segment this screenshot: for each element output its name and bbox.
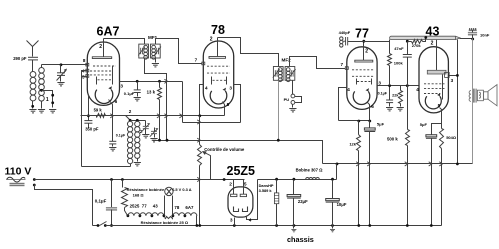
osc trimmer 2 — [154, 128, 156, 132]
svg-text:5μF: 5μF — [420, 122, 428, 127]
ground trimmer 1 — [142, 135, 149, 138]
wire 43 pin3 — [450, 75, 458, 77]
resistor 100k — [389, 40, 391, 54]
switch — [93, 225, 99, 227]
hop — [356, 162, 359, 166]
junction — [198, 224, 201, 227]
wire MF1 primary bottom — [145, 59, 167, 141]
6A7 grid dashes — [93, 65, 116, 67]
chassis ground up — [469, 28, 477, 30]
svg-text:5: 5 — [438, 103, 441, 108]
wire osc line — [106, 115, 126, 117]
MF1 primary trimmer — [138, 47, 145, 56]
svg-text:6A7: 6A7 — [185, 205, 194, 210]
antenna — [27, 41, 39, 47]
AC source bars — [10, 183, 25, 185]
25Z5 pin 4 wire — [247, 180, 258, 220]
78 inner screen box — [211, 77, 213, 85]
svg-text:0.1μF: 0.1μF — [116, 134, 126, 138]
ground tuning cap — [57, 83, 64, 86]
ground PU — [289, 109, 296, 112]
wire pot top — [199, 116, 201, 145]
wire MF1 secondary ground — [155, 59, 157, 63]
tube 78 envelope — [203, 41, 233, 108]
wire tap to link — [42, 91, 53, 108]
wire MF2 secondary to PU — [292, 81, 294, 95]
wire primary bottom — [32, 101, 34, 109]
junction — [233, 224, 236, 227]
hop — [179, 114, 182, 118]
25Z5 anode right — [243, 180, 245, 195]
ground antenna primary — [29, 110, 36, 113]
wire to filter — [336, 164, 338, 180]
wire 5uF-43 down — [431, 139, 433, 226]
resistor 12k — [358, 121, 360, 135]
6A7 pin stubs — [86, 63, 89, 77]
hop — [164, 114, 167, 118]
junction — [331, 224, 334, 227]
6A7 inner screen box — [112, 67, 114, 81]
svg-text:504Ω: 504Ω — [446, 135, 457, 140]
tube 6A7 envelope — [87, 42, 119, 105]
resistor 25 ohm section — [165, 217, 173, 219]
junction — [139, 214, 142, 217]
svg-text:PU: PU — [284, 97, 290, 102]
43 cathode arc — [425, 96, 441, 109]
svg-text:43: 43 — [153, 203, 158, 208]
wire 6A7 pin4 down — [82, 71, 88, 167]
svg-text:chassis: chassis — [287, 235, 314, 244]
MF2 primary trimmer — [273, 69, 280, 78]
hop — [197, 138, 200, 142]
78 pin 4 wire — [200, 85, 204, 116]
wire antenna to coil — [32, 60, 34, 72]
junction — [172, 214, 175, 217]
svg-text:3.589 k: 3.589 k — [259, 188, 273, 193]
wire mains bottom — [35, 185, 93, 226]
svg-text:2: 2 — [431, 40, 434, 46]
wire cathode bus — [81, 115, 225, 117]
wire MF2 secondary top to 77 — [290, 57, 346, 69]
junction — [198, 114, 201, 117]
wire bottom bus — [106, 225, 442, 227]
svg-text:3: 3 — [451, 78, 454, 83]
junction — [357, 224, 360, 227]
capacitor 0.1uF osc cathode — [109, 141, 116, 144]
junction — [406, 40, 409, 43]
wire 500k down — [407, 146, 409, 226]
svg-text:77: 77 — [142, 203, 147, 208]
hop — [429, 162, 432, 166]
ground 10uF — [332, 226, 334, 229]
MF2 secondary trimmer — [289, 69, 296, 78]
wire MF2 primary bottom — [278, 81, 280, 141]
junction tuning cap — [60, 63, 63, 66]
svg-text:5: 5 — [227, 102, 230, 107]
heater 2525 — [128, 213, 140, 216]
43 plate bar — [427, 70, 446, 74]
wire 6A7 pin6 cathode down — [109, 100, 113, 142]
svg-text:2: 2 — [129, 109, 132, 114]
osc trimmer 1 — [145, 121, 147, 127]
MF2 secondary box — [285, 67, 295, 81]
osc coil winding 2 — [135, 121, 140, 126]
AC source — [7, 177, 26, 182]
wire PU ground — [292, 105, 294, 108]
wire 77 plate line — [348, 41, 390, 43]
MF1 secondary coil — [152, 45, 156, 49]
hop — [197, 177, 200, 181]
ground osc cathode cap — [109, 148, 116, 151]
ground antenna secondary — [38, 110, 45, 113]
svg-text:6.5 V 0.3 A: 6.5 V 0.3 A — [172, 187, 192, 192]
svg-text:270k: 270k — [412, 43, 422, 48]
resistor 500k — [407, 86, 409, 130]
tube 43 envelope — [419, 47, 448, 113]
wire 78 plate to MF2 — [218, 38, 279, 67]
ground — [386, 108, 393, 111]
osc coil winding 1 — [127, 121, 132, 126]
ground trimmer 2 — [150, 139, 157, 142]
junction — [406, 224, 409, 227]
wire 5uF down — [369, 132, 371, 226]
heater 43 — [152, 213, 164, 216]
wire secondary bottom — [41, 102, 43, 109]
svg-text:100k: 100k — [394, 60, 404, 65]
heater 78 — [173, 213, 185, 216]
junction — [471, 38, 474, 41]
junction — [129, 119, 132, 122]
svg-text:MF1: MF1 — [148, 35, 158, 40]
svg-text:47nF: 47nF — [394, 46, 404, 51]
77 pin 7 stub — [345, 67, 348, 70]
6A7 plate bar — [92, 57, 111, 59]
wire AVC vertical — [182, 82, 184, 123]
capacitor 350pF — [84, 121, 92, 124]
25Z5 pin 3 wire — [234, 218, 236, 226]
svg-text:0.1μF: 0.1μF — [378, 91, 388, 95]
hop — [110, 114, 113, 118]
ground link — [49, 110, 56, 113]
25Z5 cathode left — [234, 207, 239, 212]
wire 77 cathode network — [339, 120, 370, 122]
wire 100k down — [389, 66, 391, 86]
svg-text:500 k: 500 k — [387, 137, 398, 142]
junction — [31, 105, 34, 108]
junction — [87, 114, 90, 117]
svg-text:77: 77 — [355, 27, 369, 41]
junction — [293, 224, 296, 227]
svg-text:2: 2 — [210, 37, 213, 43]
svg-text:Bobine 307 Ω: Bobine 307 Ω — [296, 167, 324, 172]
svg-text:7: 7 — [340, 62, 343, 67]
svg-text:59 k: 59 k — [94, 108, 103, 113]
svg-text:3: 3 — [229, 86, 232, 91]
78 cathode arc — [210, 91, 227, 104]
wire grid line — [42, 64, 88, 66]
svg-text:78: 78 — [211, 23, 225, 37]
svg-text:Contrôle de volume: Contrôle de volume — [204, 147, 245, 152]
43 pin 3 tab — [445, 72, 450, 77]
capacitor 22uF — [293, 180, 295, 195]
MF1 primary coil — [144, 45, 148, 49]
svg-text:3: 3 — [230, 218, 233, 224]
svg-text:0,1μF: 0,1μF — [95, 199, 107, 204]
junction — [166, 139, 169, 142]
MF1 secondary trimmer — [154, 47, 161, 56]
svg-text:110 V: 110 V — [5, 166, 32, 178]
77 grid dashes — [352, 69, 374, 71]
43 grid dashes — [424, 83, 445, 85]
B+ bus bar — [390, 36, 457, 39]
wire volume feed — [279, 141, 323, 164]
ground osc winding 2 — [134, 163, 141, 166]
wire B+ filtered line — [323, 163, 473, 165]
77 pin 4 wire — [339, 88, 347, 121]
77 pin 3 wire — [378, 85, 419, 87]
wire osc winding2 bottom — [137, 159, 139, 162]
junction — [136, 80, 139, 83]
terminal — [33, 178, 36, 181]
resistor 22k — [400, 86, 402, 91]
junction — [331, 178, 334, 181]
77 plate bar — [355, 60, 373, 62]
heater 77 — [140, 213, 152, 216]
capacitor 290pF — [28, 57, 38, 60]
svg-text:290 pF: 290 pF — [13, 56, 27, 61]
loudspeaker — [469, 85, 497, 106]
wire 13k down — [159, 100, 161, 141]
wire 6A7 pin5 down — [82, 76, 88, 78]
junction — [151, 214, 154, 217]
77 cathode arc — [353, 91, 370, 104]
ground AVC cap — [134, 98, 141, 101]
pot wiper arrow — [203, 152, 211, 156]
svg-text:4: 4 — [416, 87, 419, 92]
capacitor 0.1uF 77 — [389, 86, 391, 101]
svg-text:3: 3 — [378, 80, 381, 85]
svg-text:78: 78 — [174, 205, 179, 210]
capacitor 0.1uF AVC — [137, 82, 139, 90]
resistor 270k — [408, 41, 412, 43]
junction — [158, 139, 161, 142]
svg-text:43: 43 — [426, 25, 440, 39]
capacitor 10nF — [468, 33, 477, 35]
wire 504 down — [441, 149, 443, 226]
MF1 secondary box — [151, 44, 161, 58]
hop — [405, 162, 408, 166]
resistor 13k — [159, 82, 161, 88]
wire right rail — [472, 39, 474, 164]
78 pin 2 wire — [217, 38, 219, 57]
hop — [439, 162, 442, 166]
MF1 primary box — [139, 44, 149, 58]
77 pin 2 wire — [363, 42, 365, 61]
6A7 pin 3 AVC wire — [120, 81, 183, 83]
junction — [368, 120, 371, 123]
svg-text:2: 2 — [365, 49, 368, 55]
junction — [121, 178, 124, 181]
hop — [197, 120, 200, 124]
svg-text:2: 2 — [229, 181, 232, 187]
6A7 pin 2 wire — [103, 39, 105, 57]
capacitor 47nF — [407, 42, 409, 55]
terminal link 1 — [51, 94, 54, 97]
junction — [388, 84, 391, 87]
svg-text:2: 2 — [99, 44, 102, 50]
hop — [367, 162, 370, 166]
junction — [277, 139, 280, 142]
svg-text:Résistance bobinée: Résistance bobinée — [127, 187, 165, 192]
wire MF1 secondary top to 78 — [156, 39, 202, 64]
svg-text:5μF: 5μF — [377, 121, 385, 126]
junction — [362, 40, 365, 43]
resistor 168 ballast — [122, 180, 124, 188]
osc switch blade — [126, 116, 131, 121]
svg-text:2525: 2525 — [130, 203, 140, 208]
wire 350pF stub — [88, 124, 90, 128]
junction — [184, 214, 187, 217]
junction — [196, 224, 199, 227]
junction — [406, 84, 409, 87]
25Z5 anode left — [233, 180, 235, 195]
svg-text:4: 4 — [249, 218, 252, 224]
78 plate bar — [209, 57, 226, 59]
junction — [430, 224, 433, 227]
tube 77 envelope — [347, 47, 377, 110]
svg-text:4: 4 — [347, 87, 350, 92]
junction on bus — [424, 36, 427, 39]
junction — [110, 178, 113, 181]
junction — [163, 214, 166, 217]
wire osc winding1 bottom — [130, 164, 132, 167]
junction secondary tap — [40, 89, 43, 92]
wire rectified line — [258, 179, 337, 181]
svg-text:6: 6 — [371, 104, 374, 109]
hop — [157, 114, 160, 118]
junction — [158, 80, 161, 83]
svg-text:7: 7 — [195, 58, 198, 63]
svg-text:0.1μF: 0.1μF — [124, 91, 135, 96]
25Z5 cathode right — [243, 207, 248, 212]
svg-text:4: 4 — [205, 86, 208, 91]
ground MF1 — [152, 64, 159, 67]
wire osc tops — [131, 120, 146, 122]
tube 25Z5 envelope — [228, 187, 253, 217]
wire 12k down — [358, 151, 360, 226]
svg-text:440pF: 440pF — [339, 30, 351, 35]
junction — [368, 224, 371, 227]
MF2 secondary coil — [286, 68, 290, 72]
resistor 504 — [440, 129, 444, 149]
ground 22uF — [293, 226, 295, 229]
wire secondary top — [41, 65, 43, 68]
junction — [223, 178, 226, 181]
svg-text:6: 6 — [115, 99, 118, 104]
junction — [357, 120, 360, 123]
43 pin 5 wire — [440, 108, 442, 129]
svg-text:1: 1 — [46, 97, 49, 103]
ground — [397, 108, 404, 111]
svg-text:10μF: 10μF — [337, 202, 347, 207]
wire bus to 10nF node — [460, 38, 473, 40]
svg-text:12k: 12k — [349, 141, 356, 146]
antenna coil primary — [30, 72, 36, 78]
78 pin 7 stub — [202, 62, 205, 65]
77 inner screen box — [356, 79, 358, 85]
svg-text:168 Ω: 168 Ω — [133, 192, 145, 197]
6A7 cathode arc — [95, 90, 113, 104]
wire AVC lower — [183, 122, 241, 124]
svg-text:10nF: 10nF — [480, 32, 490, 37]
77 pin 6 cathode wire — [368, 103, 370, 121]
svg-text:6A7: 6A7 — [97, 25, 120, 39]
svg-text:5: 5 — [244, 181, 247, 187]
volume potentiometer — [198, 145, 202, 166]
wire — [112, 144, 114, 147]
capacitor 0.1uF mains — [111, 180, 113, 208]
junction — [336, 163, 339, 166]
junction — [456, 74, 459, 77]
MF2 primary box — [273, 67, 283, 81]
junction — [136, 119, 139, 122]
junction — [110, 224, 113, 227]
antenna coil secondary — [39, 68, 45, 74]
svg-text:13 k: 13 k — [147, 90, 156, 95]
junction — [456, 163, 459, 166]
svg-text:25Z5: 25Z5 — [227, 164, 256, 178]
wire pot bottom — [199, 166, 201, 226]
junction — [127, 214, 130, 217]
terminal — [33, 184, 36, 187]
pilot lamp — [164, 196, 166, 216]
tuning variable capacitor — [60, 65, 62, 73]
junction — [275, 178, 278, 181]
hop — [164, 79, 167, 83]
PU jack — [291, 94, 295, 98]
wire volume line left — [153, 140, 279, 142]
wire 6A7 plate to MF1 — [104, 39, 145, 45]
heater 6A7 — [185, 213, 197, 216]
78 pin 3 wire — [234, 85, 241, 123]
svg-text:Résistance bobinée 25 Ω: Résistance bobinée 25 Ω — [141, 220, 189, 225]
43 pin 2 wire — [436, 40, 438, 71]
junction — [275, 224, 278, 227]
junction — [293, 178, 296, 181]
svg-text:350 pF: 350 pF — [85, 127, 99, 132]
capacitor 10uF — [332, 180, 334, 199]
78 grid dashes — [207, 65, 230, 67]
wire bus corner down — [457, 40, 459, 164]
svg-text:22k: 22k — [392, 93, 399, 97]
svg-text:8: 8 — [83, 58, 86, 63]
MF2 primary coil — [278, 68, 282, 72]
wire box bottom — [82, 166, 131, 168]
svg-text:3: 3 — [120, 83, 123, 88]
wire mains top — [35, 179, 245, 181]
svg-text:22μF: 22μF — [298, 199, 308, 204]
wire heater end — [196, 216, 198, 226]
78 pin 5 cathode wire — [223, 102, 225, 116]
